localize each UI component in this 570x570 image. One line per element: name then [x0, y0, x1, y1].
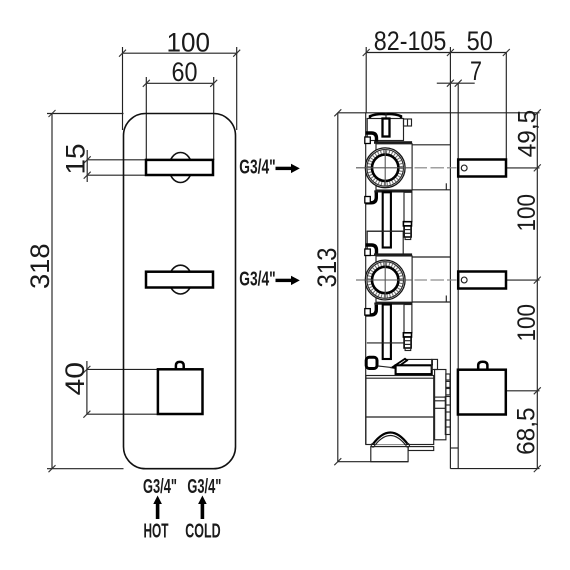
ledge line — [407, 358, 433, 360]
bolt 2 body — [404, 226, 411, 237]
stop valve rear box — [458, 370, 506, 415]
bolt 2 foot — [405, 237, 411, 240]
mounting tab 1 — [458, 160, 506, 177]
bonnet top — [432, 359, 438, 369]
svg-text:60: 60 — [172, 57, 198, 87]
svg-text:100: 100 — [513, 304, 541, 342]
bonnet column — [435, 370, 446, 440]
svg-text:100: 100 — [513, 194, 541, 232]
housing flange 2 — [374, 253, 412, 256]
bolt 3 head — [403, 333, 411, 337]
boundary tick 100/100 — [506, 279, 539, 281]
cap above cartridge 1 — [370, 114, 401, 118]
cartridge 2 circles — [365, 260, 405, 300]
handle 2 bar — [146, 272, 213, 288]
cartridge 1 circles — [365, 148, 405, 188]
hook above stop valve — [366, 357, 377, 368]
dim 318 extension bottom — [47, 468, 124, 470]
housing 2 bottom flange — [374, 303, 412, 305]
dim 40 line — [86, 361, 88, 414]
inlet arrow hot — [156, 504, 160, 520]
hook above cartridge 2 — [366, 245, 377, 256]
stop valve body box — [366, 376, 434, 445]
outlet arrow upper — [276, 167, 292, 170]
bolt right of block 1 — [404, 119, 412, 126]
tube 2 to plate — [412, 256, 450, 258]
svg-text:68,5: 68,5 — [512, 407, 540, 455]
bolt 3 foot — [405, 348, 411, 351]
svg-text:G3/4": G3/4" — [239, 157, 275, 179]
lower outlet rect — [371, 447, 408, 462]
knob nub — [176, 362, 184, 369]
svg-text:G3/4": G3/4" — [143, 476, 177, 498]
svg-text:HOT: HOT — [144, 520, 169, 542]
dim 100 line — [122, 47, 124, 130]
mounting plate — [449, 113, 451, 469]
dim 60 line — [145, 77, 147, 160]
body face line — [365, 113, 367, 445]
boundary tick 49,5/100 — [506, 167, 539, 169]
outlet arrow lower — [276, 279, 292, 282]
housing 1 bottom flange — [374, 190, 412, 192]
svg-text:82-105: 82-105 — [374, 26, 447, 56]
handle 1 ellipse — [169, 153, 192, 183]
crosshair cartridge 2 — [356, 279, 412, 281]
bolt column below cartridge 2 — [404, 305, 412, 333]
hook above cartridge 1 — [366, 133, 377, 144]
housing flange 1 — [374, 141, 412, 144]
dim 318 extension top — [47, 113, 124, 115]
pad strip — [446, 374, 450, 380]
handle 1 bar — [146, 160, 213, 175]
right dim column line — [536, 113, 538, 469]
svg-text:50: 50 — [467, 26, 493, 56]
svg-text:313: 313 — [312, 248, 342, 288]
step bar — [396, 365, 432, 374]
dome outlet — [373, 433, 408, 445]
step right of outlet — [408, 447, 434, 451]
trim plate — [124, 114, 236, 469]
svg-text:G3/4": G3/4" — [239, 269, 275, 291]
knob square — [158, 369, 203, 414]
dim 82-105 / 50 line — [366, 52, 506, 54]
hook below cartridge 2 — [366, 305, 377, 315]
svg-text:7: 7 — [470, 56, 482, 86]
dim 318 line — [51, 114, 53, 469]
connecting rod 1-2 — [383, 192, 391, 247]
bottom boundary line — [450, 468, 539, 470]
diagonal link — [378, 366, 392, 368]
mounting tab 2 — [458, 272, 506, 289]
svg-text:G3/4": G3/4" — [187, 476, 221, 498]
bolt column below cartridge 1 — [404, 192, 412, 221]
block above cartridge 2 — [367, 231, 403, 255]
crosshair cartridge 1 — [356, 167, 412, 169]
dim 313 line — [337, 113, 339, 462]
screw slot above cartridge 1 — [383, 119, 390, 137]
bolt 2 head — [403, 222, 411, 226]
clamp block above cartridge 1 — [367, 119, 403, 141]
hook below cartridge 1 — [366, 193, 377, 203]
wedge — [392, 359, 407, 368]
dim 7 line — [437, 82, 475, 84]
svg-text:100: 100 — [167, 28, 211, 58]
top boundary line — [338, 112, 540, 114]
mid line below cartridge 2 — [367, 342, 404, 344]
dim 15 line — [86, 150, 88, 182]
svg-text:15: 15 — [61, 144, 91, 175]
inlet arrow cold — [201, 504, 205, 520]
stop valve rear box nub — [478, 362, 487, 370]
svg-text:COLD: COLD — [185, 520, 220, 542]
tube 1 to plate — [412, 144, 450, 146]
housing 2 — [376, 256, 412, 302]
handle 2 ellipse — [169, 265, 192, 294]
bottom body line — [338, 461, 408, 463]
mid line below cartridge 1 — [367, 230, 404, 232]
housing 1 — [376, 144, 412, 190]
svg-text:49,5: 49,5 — [513, 110, 541, 158]
bolt 3 body — [404, 337, 411, 348]
boundary tick 100/68,5 — [506, 390, 540, 392]
connecting rod below cartridge 2 — [383, 305, 391, 360]
svg-text:318: 318 — [25, 244, 55, 290]
svg-text:40: 40 — [60, 362, 90, 396]
